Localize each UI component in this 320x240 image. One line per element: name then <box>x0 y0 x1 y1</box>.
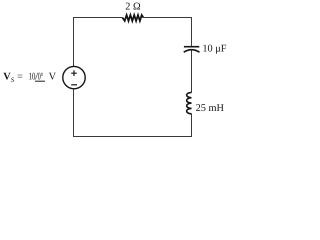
svg-text:VS=10/0°V: VS=10/0°V <box>3 71 56 84</box>
wire bottom rail <box>73 136 192 138</box>
voltage source plus sign <box>71 70 77 76</box>
wire left lower (source to bottom corner) <box>73 89 75 137</box>
wire right upper (top corner to capacitor) <box>191 17 193 47</box>
voltage source minus sign <box>71 84 77 86</box>
capacitor C top plate <box>184 46 199 48</box>
wire right lower (inductor to bottom corner) <box>191 114 193 137</box>
angle notation underline <box>35 80 45 82</box>
svg-text:10 μF: 10 μF <box>202 44 226 55</box>
wire right middle (capacitor to inductor) <box>191 50 193 92</box>
wire top-left (top rail left segment) <box>73 17 122 19</box>
resistor R 2-ohm zigzag <box>122 15 143 21</box>
svg-text:2 Ω: 2 Ω <box>125 1 141 12</box>
capacitor C bottom curved plate <box>184 50 200 53</box>
wire left upper (top corner to source) <box>73 17 75 67</box>
voltage source VS circle <box>63 66 85 88</box>
wire top-right (top rail right segment) <box>143 17 192 19</box>
inductor L coil <box>187 92 192 113</box>
svg-text:25 mH: 25 mH <box>196 103 225 114</box>
